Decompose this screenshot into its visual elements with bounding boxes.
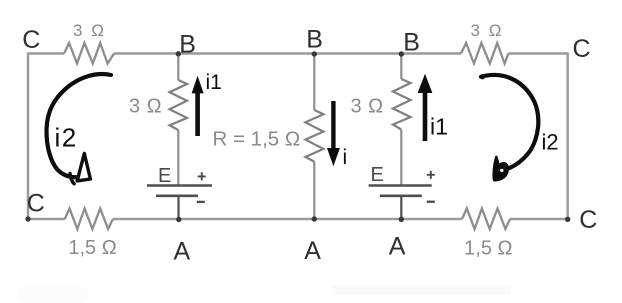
- battery E1 top plate: [147, 184, 212, 187]
- svg-text:B: B: [403, 29, 420, 57]
- svg-text:i2: i2: [55, 123, 78, 153]
- wire branch1 lower: [177, 130, 179, 185]
- node B3 junction: [399, 51, 404, 56]
- arrowhead inner gap i2 right: [500, 169, 503, 172]
- svg-text:i1: i1: [430, 114, 448, 140]
- svg-text:3 Ω: 3 Ω: [471, 21, 504, 40]
- svg-text:i2: i2: [542, 130, 559, 155]
- battery E1 lead to node A1: [177, 196, 179, 219]
- svg-text:E: E: [158, 165, 171, 187]
- svg-text:3 Ω: 3 Ω: [351, 95, 384, 117]
- battery E2 lead to node A3: [400, 196, 402, 219]
- svg-text:B: B: [306, 25, 323, 53]
- svg-text:A: A: [174, 238, 191, 266]
- resistor R5 3ohm branch1: [170, 80, 188, 130]
- mesh loop arc i2 left: [47, 74, 111, 177]
- mesh loop arc i2 right: [481, 75, 538, 169]
- node A3 junction: [399, 217, 404, 222]
- svg-text:C: C: [579, 206, 597, 234]
- svg-text:C: C: [573, 35, 591, 63]
- arrowhead i2 left: [77, 153, 90, 181]
- wire branch3 upper: [400, 54, 402, 80]
- wire left rail: [27, 52, 29, 219]
- current arrow i1 branch3: [418, 74, 433, 141]
- svg-text:1,5 Ω: 1,5 Ω: [68, 237, 116, 259]
- faint smudge bottom left: [18, 287, 88, 303]
- wire bottom rail: [28, 218, 568, 220]
- wire branch2 lower: [313, 162, 315, 219]
- node A1 junction: [176, 217, 181, 222]
- node B1 junction: [176, 51, 181, 56]
- svg-text:C: C: [27, 190, 45, 218]
- svg-text:A: A: [389, 233, 406, 261]
- arrowhead tail hook i2 left: [70, 174, 74, 184]
- resistor R4 1.5ohm bottom-right: [462, 209, 510, 230]
- wire branch2 upper: [313, 54, 315, 111]
- wire branch1 upper: [177, 54, 179, 81]
- label plus battery1: [198, 172, 206, 180]
- resistor R2 3ohm top-right: [461, 43, 508, 64]
- resistor R7 3ohm branch3: [393, 79, 411, 130]
- svg-text:R = 1,5 Ω: R = 1,5 Ω: [213, 127, 301, 150]
- svg-text:i: i: [343, 146, 348, 169]
- resistor R3 1.5ohm bottom-left: [65, 209, 113, 230]
- svg-text:A: A: [304, 237, 321, 265]
- arrowhead i2 right: [494, 157, 508, 180]
- node B2 junction: [312, 51, 317, 56]
- node C bottom-left junction: [25, 216, 30, 221]
- svg-text:3 Ω: 3 Ω: [129, 95, 162, 117]
- resistor R6 center R=1.5ohm: [305, 110, 323, 162]
- wire right rail: [567, 52, 569, 219]
- current arrow i1 branch1: [192, 76, 204, 136]
- wire top rail: [28, 52, 568, 54]
- battery E2 bottom plate: [380, 195, 422, 198]
- label plus battery2: [427, 171, 435, 179]
- svg-text:i1: i1: [206, 71, 222, 94]
- svg-text:3 Ω: 3 Ω: [73, 21, 106, 40]
- faint smudge bottom center: [332, 286, 511, 295]
- label minus battery2: [427, 201, 435, 203]
- svg-text:B: B: [179, 30, 196, 58]
- svg-text:C: C: [22, 26, 40, 54]
- svg-text:E: E: [371, 164, 384, 186]
- battery E1 bottom plate: [156, 195, 198, 198]
- label minus battery1: [197, 201, 205, 203]
- battery E2 top plate: [369, 184, 432, 187]
- current arrow i center branch: [327, 101, 340, 166]
- wire branch3 lower: [400, 130, 402, 186]
- pen press at start of loop i2 right: [480, 74, 485, 79]
- svg-text:1,5 Ω: 1,5 Ω: [464, 237, 512, 259]
- node C bottom-right junction: [565, 217, 570, 222]
- resistor R1 3ohm top-left: [64, 43, 114, 64]
- node A2 junction: [312, 216, 317, 221]
